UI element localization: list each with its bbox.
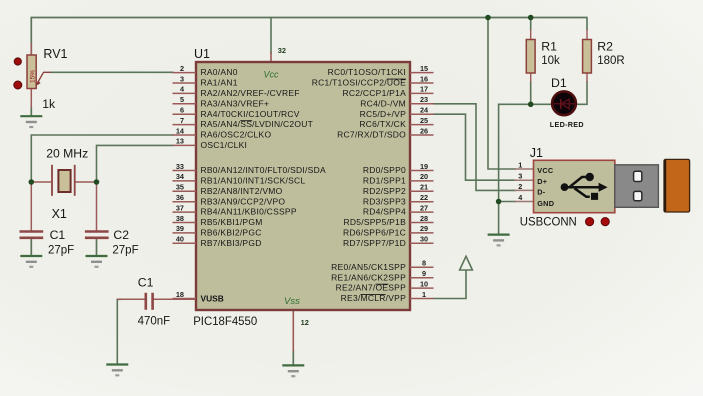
svg-text:RD7/SPP7/P1D: RD7/SPP7/P1D bbox=[343, 238, 406, 248]
svg-text:J1: J1 bbox=[530, 146, 543, 160]
U1 left pin 33 RB0/AN12/INT0/FLT0/SDI/SDA bbox=[173, 162, 326, 175]
wire RV1 bottom to ground bbox=[30, 107, 32, 116]
USBCONN red dot 1 bbox=[586, 218, 594, 226]
U1 left pin 13 OSC1/CLKI bbox=[173, 137, 248, 150]
svg-text:18: 18 bbox=[176, 290, 184, 299]
svg-text:5: 5 bbox=[180, 95, 184, 104]
resistor R2 body bbox=[583, 40, 592, 74]
svg-text:1k: 1k bbox=[42, 97, 56, 111]
wire C1-470n to VUSB pin bbox=[153, 298, 197, 300]
junction rail-R1 bbox=[528, 15, 534, 21]
svg-text:3: 3 bbox=[518, 172, 522, 181]
wire C1 top leg bbox=[30, 183, 32, 232]
wire R2 bottom stub bbox=[586, 72, 588, 82]
wire R1 top stub bbox=[530, 30, 532, 41]
svg-text:RC0/T1OSO/T1CKI: RC0/T1OSO/T1CKI bbox=[328, 67, 406, 77]
ground below C1 bbox=[20, 256, 42, 267]
wire RV1 top drop bbox=[30, 17, 32, 55]
U1 right pin 15 RC0/T1OSO/T1CKI bbox=[328, 64, 434, 77]
U1 left pin 2 RA0/AN0 bbox=[173, 64, 238, 77]
wire R1 bottom stub bbox=[530, 72, 532, 82]
junction rail-J1vcc bbox=[485, 15, 491, 21]
svg-text:C1: C1 bbox=[50, 228, 66, 242]
U1 right pin 29 RD6/SPP6/P1C bbox=[343, 224, 434, 237]
svg-text:3: 3 bbox=[180, 74, 184, 83]
U1 left pin 4 RA2/AN2/VREF-/CVREF bbox=[173, 85, 300, 98]
svg-text:30: 30 bbox=[420, 235, 428, 244]
wire pin32 red stub bbox=[270, 52, 272, 62]
U1 right pin 25 RC6/TX/CK bbox=[359, 116, 433, 129]
wire RE3 MCLR to VPP arrow bbox=[433, 270, 466, 299]
svg-text:24: 24 bbox=[420, 106, 429, 115]
capacitor C1 27pF symbol bbox=[20, 232, 44, 238]
svg-text:GND: GND bbox=[537, 199, 554, 208]
svg-text:39: 39 bbox=[176, 224, 184, 233]
wire R1 bottom to LED node bbox=[530, 81, 532, 104]
svg-text:RD6/SPP6/P1C: RD6/SPP6/P1C bbox=[343, 228, 406, 238]
LED D1 bbox=[552, 91, 576, 115]
wire LED node to left bbox=[499, 103, 532, 105]
USB plug metal shell bbox=[615, 165, 659, 208]
svg-text:26: 26 bbox=[420, 126, 428, 135]
svg-text:RE0/AN5/CK1SPP: RE0/AN5/CK1SPP bbox=[331, 262, 406, 272]
svg-text:34: 34 bbox=[176, 172, 185, 181]
svg-text:OSC1/CLKI: OSC1/CLKI bbox=[201, 140, 248, 150]
svg-text:D-: D- bbox=[537, 188, 546, 197]
svg-text:14: 14 bbox=[176, 126, 185, 135]
svg-text:17: 17 bbox=[420, 85, 428, 94]
svg-text:RB0/AN12/INT0/FLT0/SDI/SDA: RB0/AN12/INT0/FLT0/SDI/SDA bbox=[201, 165, 326, 175]
svg-text:10k: 10k bbox=[541, 55, 560, 67]
svg-text:RA1/AN1: RA1/AN1 bbox=[201, 78, 238, 88]
svg-text:D1: D1 bbox=[551, 76, 567, 90]
svg-text:9: 9 bbox=[422, 269, 426, 278]
U1 left pin 39 RB6/KBI2/PGC bbox=[173, 224, 262, 237]
svg-text:X1: X1 bbox=[52, 207, 67, 221]
svg-text:20 MHz: 20 MHz bbox=[46, 147, 88, 161]
svg-text:RV1: RV1 bbox=[43, 47, 67, 61]
svg-text:RE1/AN6/CK2SPP: RE1/AN6/CK2SPP bbox=[331, 272, 406, 282]
capacitor C1 470nF symbol bbox=[146, 293, 153, 310]
svg-text:6: 6 bbox=[180, 106, 184, 115]
svg-text:RA0/AN0: RA0/AN0 bbox=[201, 67, 238, 77]
U1 right pin 9 RE1/AN6/CK2SPP bbox=[331, 269, 433, 282]
svg-text:U1: U1 bbox=[194, 47, 210, 61]
svg-text:RA3/AN3/VREF+: RA3/AN3/VREF+ bbox=[201, 98, 270, 108]
wire crystal left link bbox=[31, 181, 51, 183]
svg-text:33: 33 bbox=[176, 162, 184, 171]
svg-text:19: 19 bbox=[420, 162, 428, 171]
U1 right pin 26 RC7/RX/DT/SDO bbox=[337, 126, 433, 139]
U1 left pin 5 RA3/AN3/VREF+ bbox=[173, 95, 270, 108]
wire Vss pin stub bbox=[292, 310, 294, 352]
U1 right pin 19 RD0/SPP0 bbox=[363, 162, 434, 175]
crystal X1 bbox=[52, 165, 75, 196]
svg-text:RB7/KBI3/PGD: RB7/KBI3/PGD bbox=[201, 238, 262, 248]
U1 right pin 22 RD3/SPP3 bbox=[363, 193, 434, 206]
wire C1 ground leg bbox=[30, 239, 32, 257]
svg-text:27: 27 bbox=[420, 203, 428, 212]
J1 pin stub GND bbox=[514, 201, 534, 203]
svg-text:2: 2 bbox=[518, 182, 522, 191]
svg-text:RB1/AN10/INT1/SCK/SCL: RB1/AN10/INT1/SCK/SCL bbox=[201, 176, 306, 186]
wire VCC top rail bbox=[31, 17, 587, 19]
U1 right pin 8 RE0/AN5/CK1SPP bbox=[331, 259, 433, 272]
svg-text:Vcc: Vcc bbox=[264, 70, 280, 80]
USB plug contact hole top bbox=[634, 171, 642, 181]
svg-text:2: 2 bbox=[180, 64, 184, 73]
svg-text:27pF: 27pF bbox=[112, 245, 138, 257]
svg-text:RB6/KBI2/PGC: RB6/KBI2/PGC bbox=[201, 228, 262, 238]
U1 right pin 24 RC5/D+/VP bbox=[360, 106, 434, 119]
svg-text:USBCONN: USBCONN bbox=[520, 215, 577, 229]
wire RC4 to USB D- bbox=[433, 104, 516, 191]
ground below RV1 bbox=[20, 116, 42, 127]
junction crystal-left node bbox=[29, 179, 35, 185]
ground below C1 470nF bbox=[106, 365, 128, 376]
svg-text:RD4/SPP4: RD4/SPP4 bbox=[363, 207, 406, 217]
svg-text:D+: D+ bbox=[537, 177, 547, 186]
wire RC5 to USB D+ bbox=[433, 114, 516, 180]
U1 left pin 7 RA5/AN4/SS/LVDIN/C2OUT bbox=[173, 116, 314, 129]
svg-text:RC6/TX/CK: RC6/TX/CK bbox=[359, 119, 406, 129]
USBCONN red dot 2 bbox=[601, 218, 609, 226]
J1 pin stub D+ bbox=[514, 179, 534, 181]
resistor R1 body bbox=[526, 40, 535, 74]
U1 left pin 36 RB3/AN9/CCP2/VPO bbox=[173, 193, 286, 206]
wire R2 top stub bbox=[586, 30, 588, 41]
svg-text:RB5/KBI1/PGM: RB5/KBI1/PGM bbox=[201, 217, 263, 227]
svg-text:470nF: 470nF bbox=[138, 315, 171, 327]
svg-text:12: 12 bbox=[301, 318, 309, 327]
svg-text:RC4/D-/VM: RC4/D-/VM bbox=[360, 98, 406, 108]
overline UOE on RC1 pin16 bbox=[387, 78, 406, 80]
svg-text:RD3/SPP3: RD3/SPP3 bbox=[363, 196, 406, 206]
overline OE on RE2 pin10 bbox=[376, 283, 389, 285]
U1 left pin 40 RB7/KBI3/PGD bbox=[173, 235, 262, 248]
ground below Vss pin 12 bbox=[282, 365, 304, 376]
RV1 terminal dot bottom bbox=[14, 81, 22, 89]
U1 right pin 17 RC2/CCP1/P1A bbox=[343, 85, 434, 98]
wire LED anode bbox=[530, 103, 552, 105]
USB plug overmold left edge bbox=[664, 160, 666, 211]
svg-text:37: 37 bbox=[176, 203, 184, 212]
wire RV1 body top stub bbox=[30, 43, 32, 56]
svg-text:RA2/AN2/VREF-/CVREF: RA2/AN2/VREF-/CVREF bbox=[201, 88, 300, 98]
svg-text:10: 10 bbox=[420, 279, 428, 288]
U1 right pin 28 RD5/SPP5/P1B bbox=[343, 214, 433, 227]
svg-text:22: 22 bbox=[420, 193, 428, 202]
USB plug orange overmold bbox=[664, 159, 690, 212]
svg-text:40: 40 bbox=[176, 235, 184, 244]
svg-text:RB3/AN9/CCP2/VPO: RB3/AN9/CCP2/VPO bbox=[201, 196, 286, 206]
wire LED cathode to R2 bbox=[575, 81, 588, 104]
wire RA6 to crystal left bbox=[31, 135, 173, 182]
svg-text:15: 15 bbox=[420, 64, 428, 73]
wire C2 top leg bbox=[96, 183, 98, 232]
U1 left pin 37 RB4/AN11/KBI0/CSSPP bbox=[173, 203, 297, 216]
U1 left pin 6 RA4/T0CKI/C1OUT/RCV bbox=[173, 106, 300, 119]
wire RV1 body bottom stub bbox=[30, 88, 32, 108]
wire J1 VCC drop bbox=[488, 17, 516, 169]
svg-text:23: 23 bbox=[420, 95, 428, 104]
U1 right pin 23 RC4/D-/VM bbox=[360, 95, 433, 108]
J1 pin stub VCC bbox=[514, 168, 534, 170]
svg-text:180R: 180R bbox=[597, 55, 625, 67]
svg-text:C1: C1 bbox=[138, 275, 154, 289]
wire R2 feed drop bbox=[586, 17, 588, 31]
svg-text:29: 29 bbox=[420, 224, 428, 233]
svg-text:RE2/AN7/OESPP: RE2/AN7/OESPP bbox=[336, 283, 406, 293]
RV1 terminal dot top bbox=[14, 58, 21, 65]
wire ground net to J1 GND bbox=[499, 201, 516, 203]
U1 left pin 18 VUSB bbox=[173, 290, 224, 304]
USB plug contact hole bottom bbox=[634, 191, 642, 200]
svg-text:1: 1 bbox=[422, 290, 426, 299]
wire C2 ground leg bbox=[96, 239, 98, 257]
svg-text:PIC18F4550: PIC18F4550 bbox=[193, 314, 257, 328]
svg-text:RD5/SPP5/P1B: RD5/SPP5/P1B bbox=[343, 217, 406, 227]
svg-text:35: 35 bbox=[176, 183, 184, 192]
svg-text:Vss: Vss bbox=[284, 296, 300, 307]
junction R1-LED node bbox=[528, 102, 534, 108]
svg-text:C2: C2 bbox=[113, 228, 129, 242]
svg-text:RC7/RX/DT/SDO: RC7/RX/DT/SDO bbox=[337, 130, 406, 140]
wire OSC1 to crystal right bbox=[97, 145, 174, 182]
U1 left pin 38 RB5/KBI1/PGM bbox=[173, 214, 263, 227]
J1 pin stub D- bbox=[514, 189, 534, 191]
svg-text:1: 1 bbox=[518, 160, 522, 169]
svg-text:20: 20 bbox=[420, 172, 428, 181]
svg-text:RD1/SPP1: RD1/SPP1 bbox=[363, 176, 406, 186]
svg-text:15%: 15% bbox=[29, 70, 36, 83]
U1 left pin 14 RA6/OSC2/CLKO bbox=[173, 126, 272, 139]
junction crystal-right node bbox=[94, 179, 100, 185]
ground below J1 bbox=[488, 235, 510, 246]
svg-text:VCC: VCC bbox=[537, 166, 554, 175]
microcontroller U1 PIC18F4550 body bbox=[196, 62, 410, 310]
svg-text:RA6/OSC2/CLKO: RA6/OSC2/CLKO bbox=[201, 130, 272, 140]
J1 USB trident symbol bbox=[565, 177, 602, 197]
svg-text:RB4/AN11/KBI0/CSSPP: RB4/AN11/KBI0/CSSPP bbox=[201, 207, 297, 217]
U1 right pin 10 RE2/AN7/OESPP bbox=[336, 279, 434, 292]
wire crystal right link bbox=[74, 181, 97, 183]
svg-text:7: 7 bbox=[180, 116, 184, 125]
svg-text:R2: R2 bbox=[597, 40, 613, 54]
wire pin32 Vcc drop bbox=[270, 18, 272, 55]
svg-text:VUSB: VUSB bbox=[201, 293, 224, 303]
U1 right pin 16 RC1/T1OSI/CCP2/UOE bbox=[312, 74, 434, 87]
U1 right pin 21 RD2/SPP2 bbox=[363, 183, 434, 196]
svg-text:RD2/SPP2: RD2/SPP2 bbox=[363, 186, 406, 196]
wire C1-470n to ground bbox=[117, 299, 121, 364]
wire C1-470n left leg bbox=[117, 298, 145, 300]
svg-text:RA4/T0CKI/C1OUT/RCV: RA4/T0CKI/C1OUT/RCV bbox=[201, 109, 300, 119]
wire RV1 wiper to RA0 bbox=[50, 71, 174, 73]
svg-text:27pF: 27pF bbox=[48, 245, 74, 257]
svg-text:25: 25 bbox=[420, 116, 428, 125]
ground below C2 bbox=[86, 256, 108, 267]
overline MCLR on RE3 pin1 bbox=[361, 294, 386, 296]
wire R1 feed drop bbox=[530, 18, 532, 31]
svg-text:13: 13 bbox=[176, 137, 184, 146]
svg-text:8: 8 bbox=[422, 259, 426, 268]
svg-text:21: 21 bbox=[420, 183, 428, 192]
U1 left pin 3 RA1/AN1 bbox=[173, 74, 238, 87]
svg-text:38: 38 bbox=[176, 214, 184, 223]
power arrow VPP at RE3 bbox=[460, 256, 473, 270]
svg-text:RC5/D+/VP: RC5/D+/VP bbox=[360, 109, 406, 119]
svg-text:16: 16 bbox=[420, 74, 428, 83]
svg-text:LED-RED: LED-RED bbox=[550, 120, 584, 129]
svg-text:RD0/SPP0: RD0/SPP0 bbox=[363, 165, 406, 175]
svg-text:RB2/AN8/INT2/VMO: RB2/AN8/INT2/VMO bbox=[201, 186, 283, 196]
capacitor C2 27pF symbol bbox=[85, 232, 109, 238]
svg-text:36: 36 bbox=[176, 193, 184, 202]
U1 right pin 20 RD1/SPP1 bbox=[363, 172, 434, 185]
U1 left pin 35 RB2/AN8/INT2/VMO bbox=[173, 183, 283, 196]
junction GND net node bbox=[496, 199, 502, 205]
U1 left pin 34 RB1/AN10/INT1/SCK/SCL bbox=[173, 172, 306, 185]
connector J1 body bbox=[534, 160, 615, 212]
U1 right pin 1 RE3/MCLR/VPP bbox=[341, 290, 434, 303]
potentiometer RV1 bbox=[27, 55, 51, 89]
svg-text:RA5/AN4/SS/LVDIN/C2OUT: RA5/AN4/SS/LVDIN/C2OUT bbox=[201, 119, 314, 129]
wire Vss to ground bbox=[292, 351, 294, 366]
U1 right pin 27 RD4/SPP4 bbox=[363, 203, 434, 216]
svg-text:RC2/CCP1/P1A: RC2/CCP1/P1A bbox=[343, 88, 407, 98]
svg-text:32: 32 bbox=[278, 46, 286, 55]
overline SS on RA5 pin7 bbox=[240, 120, 252, 122]
wire LED node down to ground net bbox=[498, 104, 500, 235]
svg-text:R1: R1 bbox=[541, 40, 557, 54]
svg-text:28: 28 bbox=[420, 214, 428, 223]
U1 right pin 30 RD7/SPP7/P1D bbox=[343, 235, 434, 248]
